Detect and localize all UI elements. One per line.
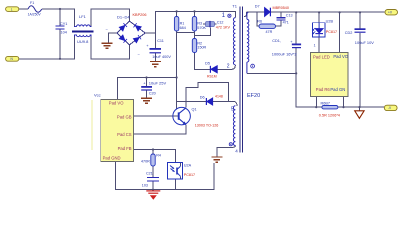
svg-text:R6: R6	[257, 19, 262, 23]
svg-text:U2B: U2B	[326, 20, 334, 24]
svg-text:103: 103	[142, 183, 148, 187]
svg-text:1: 1	[314, 44, 316, 48]
svg-text:0.5R 1206*4: 0.5R 1206*4	[319, 113, 340, 117]
svg-text:684: 684	[180, 26, 186, 30]
svg-text:CD2: CD2	[345, 31, 353, 35]
svg-text:R4: R4	[156, 153, 161, 157]
svg-text:C13: C13	[286, 14, 293, 18]
svg-text:+: +	[290, 39, 293, 44]
svg-text:47R: 47R	[266, 30, 273, 34]
svg-text:~: ~	[138, 52, 141, 57]
svg-text:D7: D7	[255, 4, 260, 8]
svg-text:F1: F1	[30, 1, 34, 5]
svg-text:13003 TO-126: 13003 TO-126	[195, 123, 219, 127]
svg-text:L: L	[11, 7, 13, 11]
svg-text:MBR0540: MBR0540	[273, 6, 289, 10]
svg-text:Pad GB: Pad GB	[117, 115, 132, 120]
svg-text:PC817: PC817	[326, 30, 337, 34]
svg-text:1000uF 16V*2: 1000uF 16V*2	[272, 52, 297, 57]
svg-text:C11: C11	[157, 39, 164, 43]
svg-text:R6B7: R6B7	[321, 101, 331, 105]
svg-text:Pad CS: Pad CS	[117, 132, 132, 137]
svg-text:570K: 570K	[197, 26, 206, 30]
svg-text:C12: C12	[217, 20, 224, 24]
svg-text:Pad LED: Pad LED	[313, 54, 330, 59]
svg-text:C21: C21	[146, 172, 153, 176]
svg-text:U2A: U2A	[184, 164, 192, 168]
svg-text:UU9.8: UU9.8	[77, 39, 89, 44]
svg-text:472 1KV: 472 1KV	[216, 26, 231, 30]
svg-text:471: 471	[283, 20, 289, 24]
svg-text:Pad R6: Pad R6	[316, 87, 331, 92]
svg-text:4: 4	[235, 148, 238, 153]
svg-text:2: 2	[227, 63, 230, 69]
svg-text:KBP206: KBP206	[133, 13, 147, 17]
svg-text:10uF 25V: 10uF 25V	[149, 81, 167, 86]
svg-text:150R: 150R	[197, 46, 206, 50]
svg-text:470R: 470R	[141, 160, 150, 164]
svg-text:Pad FB: Pad FB	[118, 146, 132, 151]
svg-text:C20: C20	[149, 91, 156, 95]
svg-text:T1: T1	[232, 4, 237, 9]
svg-text:LF1: LF1	[79, 14, 87, 19]
svg-text:1: 1	[222, 13, 226, 19]
svg-text:D6: D6	[200, 95, 205, 99]
svg-text:PC817: PC817	[184, 173, 195, 177]
svg-text:CD1,: CD1,	[272, 39, 281, 43]
svg-text:4148: 4148	[215, 94, 223, 98]
svg-text:10uF 400V: 10uF 400V	[152, 55, 171, 59]
svg-text:Q1: Q1	[192, 108, 197, 112]
svg-text:100uF 10V: 100uF 10V	[355, 40, 374, 45]
svg-text:5: 5	[231, 106, 234, 112]
svg-text:EF20: EF20	[247, 93, 260, 99]
svg-text:CY1: CY1	[60, 22, 67, 26]
svg-text:Pad VO: Pad VO	[333, 54, 348, 59]
svg-text:Vcc: Vcc	[94, 93, 101, 98]
svg-text:104: 104	[61, 30, 67, 34]
svg-text:+: +	[146, 43, 149, 48]
svg-text:D5: D5	[205, 61, 210, 65]
svg-text:D1~D4: D1~D4	[117, 15, 130, 20]
svg-text:~: ~	[106, 27, 109, 32]
svg-text:RS1M: RS1M	[207, 74, 217, 78]
svg-text:Pad GND: Pad GND	[103, 155, 121, 160]
svg-text:Pad VO: Pad VO	[109, 101, 124, 106]
svg-text:1A/250V: 1A/250V	[28, 13, 42, 17]
svg-text:Pad GN: Pad GN	[330, 87, 345, 92]
svg-text:+: +	[143, 80, 146, 85]
